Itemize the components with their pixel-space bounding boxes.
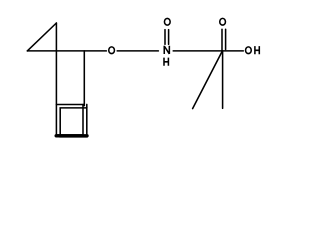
square B right-edge stub up [86,104,88,108]
wire [117,50,158,52]
square B [60,108,87,137]
bond down right [83,51,85,106]
square A top [56,104,84,106]
atom label H (on N) [164,58,168,66]
square A right [82,105,84,135]
wire [27,50,106,52]
atom label H (of OH) [255,46,259,54]
methyl vertical [222,51,224,108]
cyclopropane diagonal [27,23,56,51]
bottom band fill [56,134,87,137]
atom label O (of OH) [246,47,252,54]
C=O double bond [221,29,223,51]
square A bottom [56,134,83,136]
methyl diagonal [193,51,223,109]
atom label O (ether) [109,47,115,54]
atom label O (above C) [220,18,226,25]
atom label O (above N) [164,18,170,25]
N=O double bond [164,30,166,45]
cyclopropane vertical / bond down [55,23,57,135]
atom label N [164,46,169,54]
wire [173,50,243,52]
